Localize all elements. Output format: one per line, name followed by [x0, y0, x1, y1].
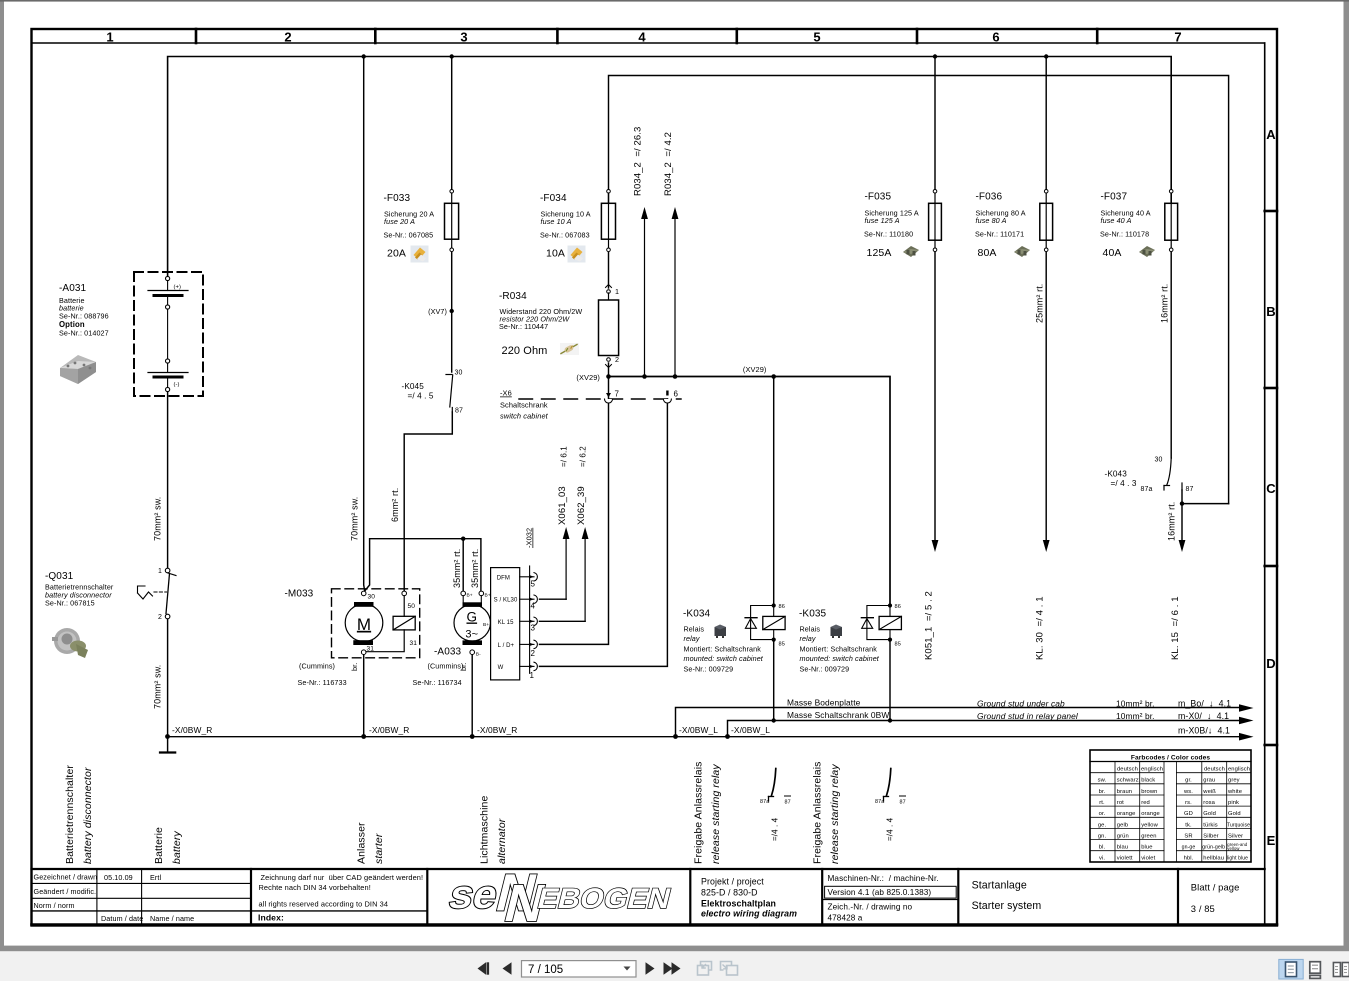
- svg-text:release starting relay: release starting relay: [829, 764, 841, 864]
- column index band line: [32, 42, 1265, 44]
- svg-text:1: 1: [106, 30, 113, 45]
- X032 internal labels: [494, 575, 518, 671]
- svg-text:Ground stud in relay panel: Ground stud in relay panel: [977, 711, 1079, 721]
- svg-text:blau: blau: [1117, 845, 1128, 851]
- svg-text:Se-Nr.: 116733: Se-Nr.: 116733: [298, 678, 347, 687]
- svg-text:Se-Nr.: 067815: Se-Nr.: 067815: [45, 599, 95, 608]
- svg-text:relay: relay: [800, 634, 816, 643]
- wire label 70mm2 sw. column 2: [350, 497, 360, 541]
- svg-text:fuse 125 A: fuse 125 A: [865, 216, 900, 225]
- svg-text:-K043: -K043: [1105, 470, 1128, 479]
- svg-text:tk.: tk.: [1185, 822, 1192, 828]
- svg-text:3~: 3~: [465, 629, 478, 641]
- svg-text:schwarz: schwarz: [1117, 778, 1139, 784]
- SENNEBOGEN logo: [441, 864, 679, 933]
- svg-text:Se-Nr.: 110447: Se-Nr.: 110447: [499, 322, 548, 331]
- K043 labels: [1105, 457, 1194, 494]
- svg-text:Geändert / modific.: Geändert / modific.: [34, 887, 97, 896]
- svg-text:-K045: -K045: [402, 382, 425, 391]
- battery A031 text block: [59, 283, 109, 338]
- svg-text:orange: orange: [1141, 811, 1160, 817]
- A033 terminal labels: [467, 593, 491, 658]
- fuse F034: [601, 190, 615, 252]
- arrow right rail 1: [787, 697, 1254, 712]
- svg-text:(XV29): (XV29): [743, 365, 767, 374]
- switch K045: [446, 375, 453, 413]
- svg-text:=/ 6.1: =/ 6.1: [560, 446, 569, 467]
- svg-text:-X6: -X6: [500, 389, 512, 398]
- svg-text:rt.: rt.: [1099, 800, 1105, 806]
- svg-text:Montiert: Schaltschrank: Montiert: Schaltschrank: [800, 645, 878, 654]
- svg-text:vi.: vi.: [1099, 856, 1105, 862]
- X6 labels: [500, 389, 549, 421]
- svg-text:Se-Nr.: 067085: Se-Nr.: 067085: [384, 231, 434, 240]
- wire: K034 coil 85 down to ground rail: [773, 642, 775, 721]
- color code right grid: [1176, 762, 1251, 863]
- wire: starter link bar M033-30 to A033 B+: [365, 539, 481, 591]
- svg-text:alternator: alternator: [496, 818, 508, 864]
- toolbar prev-page button: [503, 962, 512, 974]
- svg-text:weiß: weiß: [1202, 789, 1216, 795]
- junction XV29 at R034: [606, 374, 611, 379]
- net label -X/0BW_L rail2: [731, 725, 770, 735]
- svg-text:braun: braun: [1117, 789, 1132, 795]
- svg-text:=/4 . 4: =/4 . 4: [771, 817, 780, 841]
- svg-text:Version 4.1 (ab 825.0.1383): Version 4.1 (ab 825.0.1383): [828, 888, 932, 897]
- svg-text:Startanlage: Startanlage: [972, 880, 1027, 892]
- svg-text:5: 5: [531, 580, 536, 589]
- column tick marks: [196, 29, 1097, 43]
- svg-text:Projekt / project: Projekt / project: [701, 876, 764, 886]
- svg-text:rs.: rs.: [1185, 800, 1192, 806]
- svg-text:87: 87: [785, 800, 791, 806]
- F033 text block: [384, 193, 435, 260]
- svg-text:Lichtmaschine: Lichtmaschine: [479, 796, 491, 864]
- net label -X/0BW_L rail1: [679, 725, 718, 735]
- svg-text:starter: starter: [373, 833, 385, 864]
- F036 photo icon: [1014, 246, 1030, 257]
- svg-text:Batterie: Batterie: [153, 827, 165, 864]
- svg-text:4: 4: [638, 30, 646, 45]
- version box: [825, 886, 957, 898]
- arrow right rail 2: [787, 710, 1254, 725]
- svg-text:relay: relay: [684, 634, 700, 643]
- svg-text:30: 30: [455, 370, 463, 377]
- F034 text block: [540, 193, 591, 260]
- X032 pin wedges: [529, 575, 534, 668]
- wire: X6 pin6 column down to X032 pin 1: [540, 399, 668, 666]
- arrow down KL. 15: [1170, 540, 1185, 660]
- svg-text:grün-gelb: grün-gelb: [1202, 845, 1225, 851]
- X032 label rotated: [525, 528, 534, 548]
- junction K034 85 on rail 2: [772, 718, 776, 722]
- svg-text:=/4 . 4: =/4 . 4: [886, 817, 895, 841]
- X6 pin 7: [605, 390, 620, 404]
- svg-text:-F034: -F034: [540, 193, 567, 204]
- svg-text:87: 87: [900, 800, 906, 806]
- svg-text:Se-Nr.: 009729: Se-Nr.: 009729: [684, 665, 734, 674]
- svg-text:85: 85: [895, 642, 901, 648]
- K035 photo icon: [831, 625, 843, 639]
- svg-text:türkis: türkis: [1203, 822, 1217, 828]
- svg-text:-X/0BW_R: -X/0BW_R: [477, 725, 517, 735]
- svg-text:2: 2: [284, 30, 291, 45]
- svg-text:Se-Nr.: 014027: Se-Nr.: 014027: [59, 329, 109, 338]
- svg-text:B+: B+: [467, 593, 473, 599]
- X032 pin numbers: [530, 580, 536, 681]
- svg-text:mounted: switch cabinet: mounted: switch cabinet: [800, 654, 880, 663]
- svg-text:yellow: yellow: [1227, 846, 1240, 851]
- svg-text:Se-Nr.: 110171: Se-Nr.: 110171: [975, 230, 1024, 239]
- svg-text:3: 3: [460, 30, 467, 45]
- R034 photo icon: [560, 343, 579, 355]
- svg-text:fuse 10 A: fuse 10 A: [541, 217, 572, 226]
- svg-text:Starter system: Starter system: [972, 900, 1042, 912]
- svg-text:6: 6: [992, 30, 999, 45]
- svg-text:gelb: gelb: [1117, 822, 1128, 828]
- M033 text block: [285, 589, 360, 688]
- svg-text:B+: B+: [483, 622, 489, 628]
- svg-text:gn-ge: gn-ge: [1182, 845, 1196, 851]
- toolbar next-page button: [646, 962, 655, 974]
- wire: A033 B- down to rail: [471, 655, 473, 737]
- svg-text:Se-Nr.: 009729: Se-Nr.: 009729: [800, 665, 850, 674]
- svg-text:Blatt / page: Blatt / page: [1191, 881, 1240, 892]
- mini switch symbol 1 (release starting relay): [760, 769, 791, 842]
- color code left grid: [1090, 762, 1164, 863]
- svg-text:1: 1: [530, 671, 535, 680]
- view mode single-page (active): [1279, 959, 1303, 979]
- svg-text:-F035: -F035: [865, 192, 892, 203]
- svg-text:(-): (-): [174, 382, 180, 388]
- svg-text:gr.: gr.: [1185, 778, 1192, 784]
- toolbar background: [0, 951, 1349, 981]
- junction XV29 at arrow 4.2: [673, 374, 678, 379]
- svg-text:6mm² rt.: 6mm² rt.: [390, 488, 400, 522]
- junction on bus 1 at column 2: [362, 54, 366, 58]
- svg-text:GD: GD: [1184, 811, 1193, 817]
- net label -X/0BW_R battery: [172, 725, 212, 735]
- wire: top bus 2 (from F034 to K043 branch): [609, 76, 1229, 504]
- mini switch symbol 2 (release starting relay): [875, 769, 906, 842]
- svg-text:black: black: [1141, 778, 1155, 784]
- svg-text:K051_1 =/ 5 . 2: K051_1 =/ 5 . 2: [924, 591, 935, 660]
- svg-text:Gold: Gold: [1228, 811, 1241, 817]
- svg-text:DFM: DFM: [497, 575, 510, 581]
- svg-text:(Cummins): (Cummins): [299, 662, 335, 671]
- svg-text:05.10.09: 05.10.09: [104, 873, 133, 882]
- wire: X032 pin4 to X061 arrow: [540, 598, 567, 600]
- M033 terminal labels: [367, 594, 376, 653]
- K045 labels: [402, 370, 464, 415]
- wire: top bus 1 (battery positive rail): [168, 57, 1172, 279]
- svg-text:86: 86: [779, 604, 785, 610]
- toolbar page combo box: [522, 961, 637, 977]
- node label XV29 left: [576, 373, 600, 382]
- svg-text:220 Ohm: 220 Ohm: [502, 345, 548, 357]
- M033 solenoid: [366, 591, 415, 652]
- svg-text:=/ 4 . 5: =/ 4 . 5: [408, 392, 434, 401]
- junction dot K043/KL15: [1180, 501, 1184, 505]
- svg-text:violet: violet: [1141, 856, 1155, 862]
- row tick marks: [1265, 211, 1277, 745]
- F037 text block: [1100, 192, 1151, 260]
- arrow up R034_2 / 26.3: [633, 127, 648, 377]
- svg-text:Name / name: Name / name: [150, 914, 194, 923]
- svg-text:grün: grün: [1117, 833, 1129, 839]
- wire: F033 fuse to K045 terminal 30: [451, 252, 453, 373]
- svg-text:30: 30: [1155, 457, 1163, 464]
- svg-text:EBOGEN: EBOGEN: [534, 883, 674, 915]
- K035 terminal labels: [895, 604, 901, 648]
- Q031 3D icon: [52, 628, 88, 658]
- wire: F036 fuse down to sheet arrow KL30: [1045, 252, 1047, 541]
- svg-text:S / KL30: S / KL30: [494, 598, 518, 604]
- svg-text:X062_39: X062_39: [576, 486, 587, 525]
- junction A033 ground on bottom rail: [470, 734, 475, 739]
- ground rail 1 Masse Bodenplatte: [676, 708, 1241, 737]
- svg-text:-A033: -A033: [434, 647, 462, 658]
- svg-text:50: 50: [408, 603, 416, 610]
- svg-text:87: 87: [1186, 486, 1194, 493]
- svg-text:fuse 80 A: fuse 80 A: [976, 216, 1007, 225]
- svg-text:B: B: [1266, 304, 1276, 319]
- svg-text:B-: B-: [476, 652, 481, 658]
- wire label 35mm2 rt. left: [452, 549, 462, 588]
- svg-text:battery disconnector: battery disconnector: [82, 767, 94, 864]
- svg-text:ge.: ge.: [1098, 822, 1107, 828]
- svg-text:deutsch: deutsch: [1204, 767, 1225, 773]
- svg-text:gn.: gn.: [1098, 833, 1107, 839]
- wire label 6mm2 rt.: [390, 488, 400, 522]
- svg-text:-R034: -R034: [499, 291, 527, 302]
- battery 3D icon: [60, 355, 96, 384]
- junction XV29 at arrow 26.3: [642, 374, 647, 379]
- svg-text:125A: 125A: [867, 247, 892, 259]
- wire label 16mm2 rt. KL15: [1167, 502, 1177, 541]
- relay K034: [745, 606, 785, 640]
- color code texts: [1098, 767, 1250, 862]
- svg-text:2: 2: [158, 614, 162, 621]
- svg-text:Turquoise: Turquoise: [1227, 822, 1250, 828]
- Q031 terminal numbers: [158, 568, 162, 621]
- svg-text:brown: brown: [1141, 789, 1157, 795]
- svg-text:Masse Bodenplatte: Masse Bodenplatte: [787, 697, 861, 707]
- svg-text:m-X0/ ↓ 4.1: m-X0/ ↓ 4.1: [1178, 711, 1229, 721]
- arrow up R034_2 / 4.2: [663, 132, 678, 377]
- A033 text block: [413, 647, 469, 688]
- X032 pin bus line: [529, 566, 531, 673]
- svg-text:switch cabinet: switch cabinet: [500, 412, 549, 421]
- disconnect switch Q031 contacts: [165, 568, 176, 619]
- title block left texts: [34, 873, 195, 924]
- svg-text:englisch: englisch: [1141, 767, 1163, 773]
- wire: XV29 rail: [609, 377, 891, 604]
- X032 pins: [520, 573, 538, 671]
- svg-text:10mm² br.: 10mm² br.: [1116, 699, 1155, 709]
- svg-text:bl.: bl.: [1099, 845, 1106, 851]
- row index band line: [1264, 43, 1266, 924]
- arrow down KL. 30: [1035, 540, 1050, 660]
- svg-text:Silber: Silber: [1203, 833, 1218, 839]
- svg-text:80A: 80A: [978, 247, 997, 259]
- svg-text:40A: 40A: [1103, 247, 1122, 259]
- svg-text:2: 2: [531, 649, 536, 658]
- svg-text:7: 7: [615, 390, 620, 399]
- svg-text:70mm² sw.: 70mm² sw.: [350, 497, 360, 541]
- junction on bus 1 at F036: [1044, 54, 1048, 58]
- title block CAD notice texts: [258, 873, 423, 923]
- color code table frame: [1090, 750, 1251, 862]
- svg-text:16mm² rt.: 16mm² rt.: [1160, 284, 1170, 323]
- svg-text:85: 85: [779, 642, 785, 648]
- wire: K034 coil feed from XV29: [773, 377, 775, 604]
- svg-text:7 / 105: 7 / 105: [528, 964, 563, 976]
- battery A031 dashed box: [134, 272, 203, 396]
- svg-text:m-X0B/↓ 4.1: m-X0B/↓ 4.1: [1178, 725, 1230, 735]
- svg-text:10A: 10A: [546, 248, 565, 260]
- svg-text:Silver: Silver: [1228, 833, 1243, 839]
- wire: K035 coil 85 down to ground rail: [889, 642, 891, 721]
- title block grid lines: [32, 869, 1278, 925]
- svg-text:825-D / 830-D: 825-D / 830-D: [701, 887, 758, 897]
- svg-text:Se-Nr.: 067083: Se-Nr.: 067083: [540, 231, 590, 240]
- svg-text:-A031: -A031: [59, 283, 87, 294]
- svg-text:6: 6: [674, 390, 679, 399]
- svg-text:yellow: yellow: [1141, 822, 1158, 828]
- svg-text:Zeichnung darf nur über CAD g: Zeichnung darf nur über CAD geändert wer…: [261, 873, 424, 882]
- svg-text:M: M: [357, 615, 371, 634]
- starter M033 dashed box: [332, 589, 420, 658]
- svg-text:KL 15: KL 15: [498, 620, 515, 626]
- svg-text:light blue: light blue: [1227, 856, 1248, 862]
- F034 photo icon: [568, 246, 586, 263]
- junction M033 ground on bottom rail: [361, 734, 366, 739]
- svg-text:englisch: englisch: [1228, 767, 1250, 773]
- K035 text block: [799, 609, 880, 674]
- svg-text:battery: battery: [171, 831, 183, 864]
- svg-text:=/ 4 . 3: =/ 4 . 3: [1111, 479, 1137, 488]
- title block machine texts: [828, 874, 939, 923]
- svg-text:Datum / date: Datum / date: [101, 914, 143, 923]
- svg-text:-Q031: -Q031: [45, 571, 74, 582]
- fuse F036: [1040, 190, 1053, 252]
- toolbar first-page button: [478, 962, 490, 974]
- svg-text:(XV29): (XV29): [576, 373, 600, 382]
- svg-text:10mm² br.: 10mm² br.: [1116, 711, 1155, 721]
- view mode continuous: [1310, 962, 1321, 979]
- svg-text:Montiert: Schaltschrank: Montiert: Schaltschrank: [684, 645, 762, 654]
- F035 photo icon: [903, 246, 919, 257]
- svg-text:Zeich.-Nr. / drawing no: Zeich.-Nr. / drawing no: [828, 903, 913, 912]
- wire: F035 drop from bus 1: [934, 57, 936, 190]
- wire: M033 31 down to rail: [363, 655, 365, 737]
- svg-text:31: 31: [410, 640, 418, 647]
- svg-text:86: 86: [895, 604, 901, 610]
- wire label 35mm2 rt. right: [470, 549, 480, 588]
- R034 pin marks and numbers: [606, 285, 620, 368]
- battery A031 cells: [148, 276, 188, 391]
- wire: F035 fuse down to sheet arrow K051_1: [934, 252, 936, 541]
- F035 text block: [864, 192, 919, 260]
- M033 solenoid labels: [408, 603, 418, 647]
- svg-text:sw.: sw.: [1098, 778, 1107, 784]
- svg-text:-X/0BW_L: -X/0BW_L: [731, 725, 770, 735]
- svg-text:rosa: rosa: [1203, 800, 1215, 806]
- svg-text:-F037: -F037: [1101, 192, 1128, 203]
- color code table header: [1131, 754, 1210, 761]
- svg-text:electro wiring diagram: electro wiring diagram: [701, 909, 797, 919]
- svg-text:1: 1: [615, 287, 619, 296]
- battery polarity labels: [174, 285, 182, 389]
- svg-text:B+: B+: [485, 593, 491, 599]
- svg-text:Relais: Relais: [800, 625, 821, 634]
- svg-text:-K034: -K034: [683, 609, 711, 620]
- junction rail2 on bottom rail: [725, 734, 730, 739]
- wire label 70mm2 sw. below Q031: [153, 665, 163, 709]
- K034 terminal labels: [779, 604, 785, 648]
- svg-text:Gold: Gold: [1203, 811, 1216, 817]
- svg-text:red: red: [1141, 800, 1150, 806]
- node XV7 junction dot and label: [428, 307, 454, 316]
- wire: column 2 drop to starter terminal 30: [364, 57, 365, 592]
- svg-text:orange: orange: [1117, 811, 1136, 817]
- wire label 25mm2 rt. F036: [1035, 284, 1045, 323]
- M033 motor symbol: [345, 591, 383, 654]
- junction dot on link bar: [461, 537, 465, 541]
- row letters A-E: [1266, 127, 1276, 848]
- switch K043: [1164, 458, 1182, 490]
- svg-text:3 / 85: 3 / 85: [1191, 903, 1215, 914]
- svg-text:G: G: [466, 610, 477, 625]
- svg-text:2: 2: [615, 355, 619, 364]
- svg-text:grau: grau: [1203, 778, 1215, 784]
- svg-text:release starting relay: release starting relay: [710, 764, 722, 864]
- svg-text:Farbcodes / Color codes: Farbcodes / Color codes: [1131, 754, 1210, 761]
- svg-text:X061_03: X061_03: [557, 486, 568, 525]
- svg-text:Anlasser: Anlasser: [356, 822, 368, 864]
- svg-text:87: 87: [455, 408, 463, 415]
- fuse F037: [1165, 190, 1178, 252]
- R034 text block: [499, 291, 582, 357]
- K035 junction dots 86/85: [888, 603, 892, 641]
- arrow right bottom rail: [1178, 725, 1254, 740]
- svg-text:-K035: -K035: [799, 609, 827, 620]
- svg-text:Gezeichnet / drawn: Gezeichnet / drawn: [34, 873, 98, 882]
- wire: K045 87 down-left to solenoid 50: [404, 412, 452, 591]
- wire: K043 87 down to junction and arrow KL15: [1182, 490, 1229, 540]
- svg-text:KL. 15 =/ 6 . 1: KL. 15 =/ 6 . 1: [1170, 596, 1181, 660]
- svg-text:ws.: ws.: [1183, 789, 1193, 795]
- connector X6 dashed line: [519, 398, 681, 400]
- svg-text:-X032: -X032: [525, 528, 534, 548]
- svg-text:D: D: [1266, 656, 1276, 671]
- svg-text:mounted: switch cabinet: mounted: switch cabinet: [684, 654, 764, 663]
- svg-text:R034_2 =/ 26.3: R034_2 =/ 26.3: [633, 127, 644, 196]
- arrow up X062_39: [576, 446, 589, 622]
- ground bar under Q031: [160, 751, 175, 753]
- svg-text:A: A: [1266, 127, 1276, 142]
- K034 text block: [683, 609, 764, 674]
- svg-text:478428 a: 478428 a: [828, 914, 863, 923]
- svg-text:W: W: [498, 665, 504, 671]
- svg-text:Elektroschaltplan: Elektroschaltplan: [701, 899, 776, 909]
- title block page texts: [1191, 881, 1240, 914]
- wire: F036 drop from bus 1: [1045, 57, 1047, 190]
- svg-text:E: E: [1267, 833, 1276, 848]
- svg-text:fuse 40 A: fuse 40 A: [1101, 216, 1132, 225]
- wire: X6 pin7 column down to X032 pin 2: [540, 377, 609, 645]
